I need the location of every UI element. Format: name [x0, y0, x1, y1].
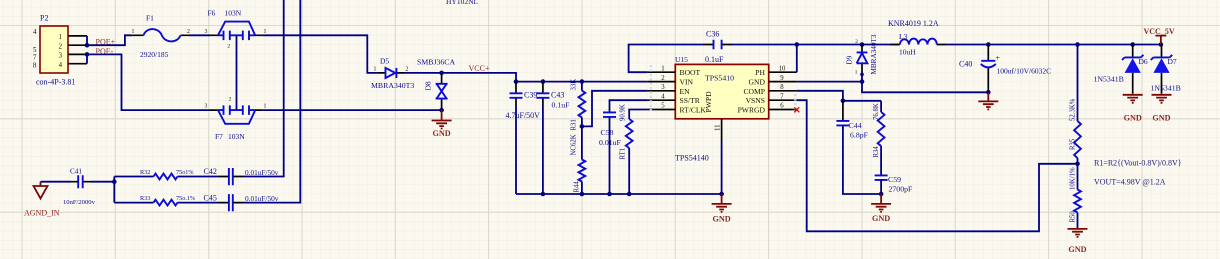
- svg-text:D5: D5: [380, 57, 389, 66]
- svg-text:C40: C40: [959, 60, 972, 69]
- inductor L3 10uH: [891, 32, 947, 57]
- svg-text:HY102NL: HY102NL: [446, 0, 478, 6]
- svg-text:P2: P2: [40, 14, 48, 23]
- svg-text:90.9K: 90.9K: [620, 104, 627, 121]
- wire C36 to PH node: [732, 42, 899, 47]
- svg-text:MBRA340T3: MBRA340T3: [870, 34, 878, 74]
- svg-text:1: 1: [855, 70, 858, 76]
- wire P2 pin4 to pin3 junction: [85, 52, 90, 64]
- capacitor C44 6.8pF: [836, 101, 881, 194]
- svg-text:2700pF: 2700pF: [889, 185, 913, 194]
- svg-text:+: +: [996, 54, 1001, 63]
- svg-text:F1: F1: [146, 14, 154, 23]
- resistor R50 10K/1%: [1070, 164, 1081, 229]
- wire F6 pin1 to D5: [262, 35, 377, 73]
- net label POE+: [96, 37, 116, 46]
- ground under D8: [432, 110, 452, 138]
- svg-text:1N5341B: 1N5341B: [1151, 84, 1181, 93]
- svg-text:8: 8: [33, 61, 37, 69]
- ground under C40: [978, 92, 998, 109]
- svg-text:0.01uF/50v: 0.01uF/50v: [245, 168, 279, 177]
- label KNR4019 1.2A: [888, 19, 939, 28]
- svg-text:1: 1: [661, 65, 664, 72]
- wire POE+ net: [87, 35, 132, 45]
- svg-text:GND: GND: [1068, 245, 1086, 254]
- svg-text:EN: EN: [680, 87, 691, 96]
- power port AGND_IN: [24, 182, 60, 218]
- capacitor C45 0.01uF/50v: [204, 193, 279, 211]
- wire ground bus: [516, 192, 724, 197]
- wire C42 row riser to top: [244, 0, 284, 177]
- svg-text:GND: GND: [872, 214, 890, 223]
- svg-text:2: 2: [229, 97, 232, 103]
- svg-text:GND: GND: [1124, 114, 1142, 123]
- wire D9 anode to C40 bottom: [862, 74, 988, 92]
- wire BOOT to C36: [629, 45, 703, 73]
- svg-text:1: 1: [264, 29, 267, 35]
- fuse F1 2920/185: [132, 14, 191, 60]
- svg-text:1: 1: [264, 104, 267, 110]
- svg-text:C59: C59: [888, 175, 901, 184]
- capacitor C42 0.01uF/50v: [204, 167, 279, 185]
- svg-text:103N: 103N: [225, 9, 242, 18]
- svg-text:2: 2: [59, 43, 63, 50]
- wire PH pin riser: [796, 45, 798, 73]
- svg-text:C44: C44: [849, 121, 862, 130]
- svg-text:3: 3: [59, 53, 63, 60]
- svg-text:R44: R44: [574, 181, 581, 193]
- wire F6 center tap to F7 center tap: [236, 35, 238, 110]
- svg-text:103N: 103N: [228, 132, 245, 141]
- svg-text:1N5341B: 1N5341B: [1094, 75, 1124, 84]
- ground under D6: [1123, 93, 1143, 122]
- EMI filter F6 103N: [205, 9, 267, 50]
- wire F7 pin1 to D8 ground node: [262, 109, 441, 111]
- wire VSNS to feedback node: [797, 100, 1078, 231]
- svg-text:3: 3: [661, 84, 665, 91]
- svg-text:L3: L3: [899, 32, 908, 41]
- svg-text:D7: D7: [1168, 57, 1177, 66]
- svg-text:R33: R33: [140, 195, 150, 202]
- no-ERC mark pin6: [794, 107, 799, 112]
- EMI filter F7 103N: [205, 97, 267, 141]
- svg-text:10K/1%: 10K/1%: [1070, 167, 1077, 190]
- svg-text:PH: PH: [755, 68, 765, 77]
- op-amp U15 TPS5410 regulator: [648, 55, 797, 142]
- svg-text:8: 8: [780, 84, 784, 91]
- svg-text:C43: C43: [551, 91, 564, 100]
- diode D9 MBRA340T3: [846, 34, 879, 76]
- svg-text:BOOT: BOOT: [680, 68, 701, 77]
- wire POE- net: [87, 54, 210, 110]
- wire C41 to splitter node: [91, 179, 117, 184]
- svg-text:F7: F7: [215, 132, 223, 141]
- svg-text:10: 10: [779, 65, 786, 72]
- svg-text:0.01uF/50v: 0.01uF/50v: [245, 194, 279, 203]
- svg-text:VIN: VIN: [680, 78, 694, 87]
- wire SS/TR to C58: [610, 100, 648, 112]
- wire VCC+ rail to VIN: [442, 73, 648, 84]
- svg-text:VCC_5V: VCC_5V: [1144, 27, 1175, 36]
- wire GND pin to D9 anode: [797, 79, 865, 84]
- svg-text:0.1uF: 0.1uF: [705, 55, 724, 64]
- resistor R34 76.8K: [873, 101, 885, 175]
- svg-text:R1=R2{(Vout-0.8V)/0.8V}: R1=R2{(Vout-0.8V)/0.8V}: [1094, 159, 1182, 168]
- svg-text:VOUT=4.98V @1.2A: VOUT=4.98V @1.2A: [1094, 178, 1166, 187]
- svg-text:100uf/10V/6032C: 100uf/10V/6032C: [997, 67, 1052, 76]
- ground under C59: [871, 194, 891, 223]
- svg-text:PWRGD: PWRGD: [738, 106, 766, 115]
- node D8 bottom junction: [439, 108, 444, 113]
- svg-text:1: 1: [132, 29, 135, 35]
- svg-text:C45: C45: [204, 193, 217, 202]
- net label SMBJ36CA: [417, 57, 456, 66]
- wire C43 to ground bus: [541, 106, 546, 196]
- svg-text:10nF/2000v: 10nF/2000v: [63, 199, 96, 206]
- zener diode D6 1N5341B: [1094, 45, 1148, 94]
- svg-text:TPS54140: TPS54140: [675, 154, 709, 163]
- svg-text:GND: GND: [1152, 114, 1170, 123]
- svg-text:U15: U15: [675, 55, 688, 64]
- svg-text:0.01uF: 0.01uF: [599, 138, 622, 147]
- svg-text:C42: C42: [204, 167, 217, 176]
- svg-text:D8: D8: [424, 81, 433, 90]
- svg-text:11: 11: [715, 124, 722, 131]
- svg-text:R32: R32: [140, 169, 150, 176]
- svg-text:2: 2: [661, 75, 665, 82]
- svg-text:C41: C41: [70, 168, 82, 176]
- svg-text:2920/185: 2920/185: [140, 50, 169, 59]
- svg-text:1: 1: [374, 66, 377, 72]
- svg-text:NC62K: NC62K: [571, 134, 578, 155]
- svg-text:D6: D6: [1139, 57, 1148, 66]
- svg-text:5: 5: [661, 103, 665, 110]
- svg-text:C39: C39: [524, 91, 537, 100]
- ground under R50: [1068, 229, 1088, 254]
- ground under D7: [1152, 93, 1172, 122]
- capacitor C39 4.7uF/50V: [506, 82, 541, 120]
- wire D5 to VCC+ node: [404, 71, 444, 76]
- svg-text:TPS5410: TPS5410: [705, 74, 734, 83]
- connector P2: [33, 14, 87, 87]
- capacitor C40 100uf/10V/6032C: [959, 45, 1051, 93]
- wire EN to R31/R44 node: [580, 91, 648, 129]
- svg-text:0.1uF: 0.1uF: [552, 101, 571, 110]
- resistor R32 75o1%: [114, 169, 218, 179]
- zener diode D7 1N5341B: [1151, 45, 1181, 94]
- svg-text:POE-: POE-: [96, 47, 114, 56]
- svg-text:MBRA340T3: MBRA340T3: [371, 81, 414, 90]
- svg-text:GND: GND: [749, 78, 766, 87]
- svg-text:GND: GND: [432, 129, 450, 138]
- svg-text:4.7uF/50V: 4.7uF/50V: [506, 111, 541, 120]
- note output formulas: [1094, 159, 1182, 187]
- svg-text:3: 3: [205, 104, 208, 110]
- svg-text:RT1: RT1: [620, 148, 627, 160]
- svg-text:75o1%: 75o1%: [176, 169, 194, 176]
- svg-text:RT/CLK: RT/CLK: [680, 106, 707, 115]
- node C40 bottom: [986, 90, 991, 95]
- svg-text:C36: C36: [706, 30, 719, 39]
- svg-text:AGND_IN: AGND_IN: [24, 209, 60, 218]
- svg-text:PWPD: PWPD: [704, 91, 713, 113]
- diode D5 MBRA340T3: [371, 57, 414, 91]
- ground under IC: [712, 194, 732, 224]
- label HY102NL (clipped): [446, 0, 478, 6]
- wire PWPD pad to ground bus: [721, 142, 723, 194]
- svg-text:4: 4: [33, 28, 37, 36]
- svg-text:4: 4: [59, 62, 63, 69]
- svg-text:SMBJ36CA: SMBJ36CA: [417, 57, 456, 66]
- svg-text:COMP: COMP: [743, 87, 765, 96]
- svg-text:F6: F6: [208, 9, 216, 18]
- svg-text:GND: GND: [712, 215, 730, 224]
- svg-text:10uH: 10uH: [899, 48, 916, 57]
- resistor R35 52.3K: [1070, 45, 1081, 164]
- resistor RT1 90.9K: [620, 104, 633, 196]
- svg-text:con-4P-3.81: con-4P-3.81: [36, 78, 75, 87]
- wire F1 to F6: [190, 34, 210, 36]
- svg-text:2: 2: [855, 39, 858, 45]
- svg-text:VCC+: VCC+: [469, 64, 490, 73]
- net label VCC+: [469, 64, 490, 73]
- capacitor C36 0.1uF: [703, 30, 732, 65]
- svg-text:6.8pF: 6.8pF: [850, 131, 869, 140]
- power port VCC_5V: [1144, 27, 1175, 44]
- svg-text:7: 7: [780, 93, 784, 100]
- svg-text:R35: R35: [1070, 138, 1077, 150]
- svg-text:KNR4019 1.2A: KNR4019 1.2A: [888, 19, 939, 28]
- svg-text:R34: R34: [873, 146, 880, 158]
- svg-text:76.8K: 76.8K: [873, 103, 880, 120]
- svg-text:2: 2: [187, 29, 190, 35]
- svg-text:33K: 33K: [571, 79, 578, 91]
- TVS diode D8 SMBJ36CA: [424, 73, 448, 110]
- capacitor C59 2700pF: [875, 175, 913, 196]
- wire C45 row riser to top: [244, 0, 301, 203]
- wire splitter vertical: [113, 177, 115, 203]
- svg-text:D9: D9: [846, 55, 854, 64]
- svg-text:POE+: POE+: [96, 37, 116, 46]
- wire COMP to compensation node: [797, 91, 881, 103]
- wire P2 pin1 to pin2 junction: [85, 36, 90, 48]
- svg-text:3: 3: [205, 29, 208, 35]
- svg-text:75o.1%: 75o.1%: [176, 195, 195, 202]
- svg-text:6: 6: [780, 103, 784, 110]
- svg-text:R50: R50: [1070, 211, 1077, 223]
- wire AGND_IN to C41: [41, 181, 71, 183]
- wire L3 to output rail: [947, 42, 1164, 47]
- capacitor C41 10nF/2000v: [63, 168, 96, 207]
- svg-text:4: 4: [661, 93, 665, 100]
- net label POE-: [96, 47, 114, 56]
- svg-text:C58: C58: [601, 128, 614, 137]
- wire C39 to ground bus: [515, 106, 517, 194]
- wire RT/CLK to RT1: [629, 110, 647, 120]
- resistor R31 33K: [571, 79, 586, 131]
- capacitor C58 0.01uF: [599, 112, 622, 196]
- svg-text:9: 9: [780, 75, 784, 82]
- svg-text:7: 7: [33, 53, 37, 61]
- svg-text:VSNS: VSNS: [746, 96, 765, 105]
- label TPS54140: [675, 154, 709, 163]
- svg-text:1: 1: [59, 34, 62, 41]
- resistor R44 NC/62K: [571, 126, 586, 196]
- svg-text:R31: R31: [571, 119, 578, 130]
- capacitor C43 0.1uF: [536, 82, 570, 110]
- svg-text:SS/TR: SS/TR: [680, 96, 701, 105]
- svg-text:52.3K%: 52.3K%: [1070, 98, 1077, 121]
- svg-text:2: 2: [227, 44, 230, 50]
- resistor R33 75o.1%: [114, 195, 218, 206]
- svg-text:2: 2: [406, 66, 409, 72]
- node feedback: [1075, 162, 1080, 167]
